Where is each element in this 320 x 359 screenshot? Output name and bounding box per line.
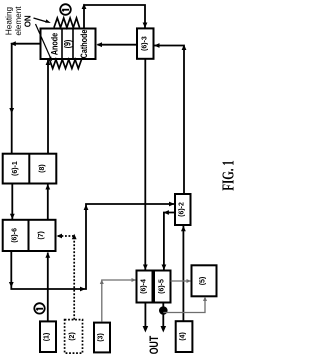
svg-text:Anode: Anode (50, 32, 60, 55)
svg-text:(6)-5: (6)-5 (159, 279, 166, 294)
stream circle 1 top (60, 4, 71, 15)
boxes (6)-1 and (8) (3, 154, 57, 184)
svg-text:element: element (14, 6, 23, 36)
svg-text:(7): (7) (38, 231, 45, 240)
wire (6)-3 to cathode right (97, 42, 138, 47)
svg-text:(9): (9) (63, 39, 73, 48)
leader line to bottom heater (36, 24, 53, 62)
wire (7) top to (8) bottom (45, 184, 50, 220)
stream circle 1 bottom (34, 303, 44, 313)
fuel cell box (Anode | (9) | Cathode) (41, 29, 96, 60)
boxes (6)-6 and (7) (3, 220, 56, 251)
box (5) (192, 265, 217, 296)
box (4) (176, 321, 193, 352)
svg-text:(4): (4) (180, 332, 187, 341)
gray wire (3) top to (6)-4 left (100, 278, 136, 322)
svg-text:Cathode: Cathode (79, 29, 89, 58)
leader arrow to top heater (34, 18, 51, 23)
svg-text:Heating: Heating (4, 6, 13, 35)
wire (6)-5 bottom OUT arrow (161, 303, 167, 333)
wire (6)-2 top to (6)-3 right (154, 43, 186, 194)
heating element top zigzag (54, 18, 80, 28)
svg-text:(6)-3: (6)-3 (142, 36, 149, 51)
box (6)-4 (137, 271, 153, 303)
text Heating element (4, 6, 23, 36)
box (6)-2 (175, 194, 191, 225)
svg-text:(3): (3) (98, 333, 105, 342)
heating element bottom zigzag (50, 60, 82, 69)
svg-text:FIG. 1: FIG. 1 (221, 160, 239, 191)
wire (6)-6 bottom loop to (6)-2 left (9, 202, 175, 292)
svg-text:(8): (8) (39, 164, 46, 173)
box (3) (94, 323, 110, 353)
wire anode left down to (6)-1 top (9, 41, 40, 153)
box (1) (40, 321, 56, 352)
wire cathode top to (6)-3 top (82, 4, 148, 29)
svg-text:ON: ON (24, 15, 33, 27)
wire (4) top to (6)-2 bottom (181, 226, 186, 321)
junction dot (159, 306, 168, 315)
svg-text:(6)-2: (6)-2 (179, 202, 186, 217)
wire (8) top to anode bottom (46, 60, 51, 154)
svg-text:(6)-4: (6)-4 (141, 279, 148, 294)
box (6)-3 (137, 28, 154, 58)
gray wire (6)-5 right to (5) left (171, 279, 192, 283)
box (6)-5 (154, 271, 171, 303)
svg-text:(1): (1) (44, 333, 51, 342)
wire (1) top to (7) bottom (45, 252, 50, 321)
dashed wire (2) top to (7) right (57, 234, 77, 320)
svg-text:(5): (5) (200, 277, 207, 286)
wire (6)-3 bottom to (6)-4 top (143, 59, 148, 270)
wire (6)-4 bottom OUT arrow (143, 303, 149, 333)
svg-text:(2): (2) (69, 332, 76, 341)
svg-text:OUT: OUT (149, 335, 162, 354)
wire (6)-2 left to (6)-5 top (162, 210, 176, 270)
svg-text:(6)-1: (6)-1 (12, 161, 19, 176)
gray wire junction dot to (5) bottom (163, 297, 207, 313)
box (2) dashed (65, 320, 83, 354)
wire (6)-1 bottom to (6)-6 top (10, 184, 15, 220)
svg-text:(6)-6: (6)-6 (12, 228, 19, 243)
